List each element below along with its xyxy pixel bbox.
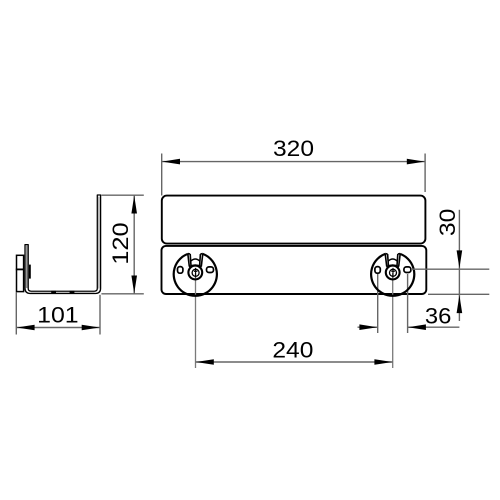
dimension 120: bottom arrow <box>131 276 137 294</box>
extension line: left slot of right bracket (36 dim) <box>377 274 379 333</box>
svg-text:120: 120 <box>108 222 133 264</box>
bracket outer circle (gapped at top) <box>371 254 414 296</box>
dimension 36: dimension line right tail <box>408 326 460 328</box>
dimension 30: up arrow (outside, below) <box>457 295 463 313</box>
front view: shelf body panel <box>162 246 427 294</box>
dimension 320: right extension line <box>424 154 426 193</box>
bracket spring clip arc <box>191 259 200 261</box>
svg-text:240: 240 <box>272 337 313 362</box>
bracket boss top band <box>386 265 399 267</box>
bracket right fixing slot <box>404 267 411 273</box>
bracket mouth left prong <box>385 254 388 267</box>
dimension 120: bottom extension line <box>101 293 143 295</box>
dimension 36: right arrow (outside) <box>408 324 426 330</box>
centerline under right bracket <box>392 273 394 368</box>
side view: shelf sheet-metal profile (right wall, bottom, left lip) <box>25 195 101 294</box>
svg-text:101: 101 <box>37 303 79 328</box>
side view: wall bracket plate <box>17 255 24 291</box>
side view: bottom slot mark 2 <box>70 291 75 294</box>
side view: bottom slot mark 1 <box>51 291 56 294</box>
dimension 101: left arrow <box>17 325 35 331</box>
bracket screw head <box>390 269 397 276</box>
svg-text:30: 30 <box>435 209 460 237</box>
centerline under left bracket <box>195 273 197 368</box>
dimension 120: dimension line <box>133 195 135 294</box>
side view: left lip core shading <box>26 245 28 288</box>
bracket spring clip arc <box>388 259 397 261</box>
dimension 36: left arrow (outside) <box>359 324 377 330</box>
side view: bottom core shading <box>31 291 95 294</box>
dimension 240: left arrow <box>196 359 214 365</box>
bracket mouth right prong <box>397 254 400 267</box>
side view: bracket hook tab <box>29 265 31 279</box>
bracket mouth right prong <box>200 254 203 267</box>
dimension 36: dimension line left tail <box>358 326 378 328</box>
bracket boss top band <box>189 265 202 267</box>
svg-text:320: 320 <box>273 136 314 161</box>
bracket screw head <box>192 269 199 276</box>
front view: top rail panel <box>162 196 426 244</box>
bracket mouth left prong <box>188 254 191 267</box>
bracket right fixing slot <box>207 267 214 273</box>
dimension 320: left extension line <box>161 154 163 196</box>
side view: right wall core shading <box>98 197 100 289</box>
bracket left fixing slot <box>375 267 380 274</box>
dimension 101: left extension line <box>15 293 17 335</box>
bracket screw slot <box>391 268 395 278</box>
dimension 240: dimension line <box>196 361 393 363</box>
mounting bracket U1 (left) <box>174 254 217 296</box>
dimension 101: dimension line <box>16 327 100 329</box>
dimension 30: lower extension line (shelf bottom edge) <box>428 293 489 295</box>
bracket boss circle <box>386 266 400 280</box>
mounting bracket U2 (right) <box>371 254 414 296</box>
dimension 320: dimension line <box>162 161 425 163</box>
dimension 101: right arrow <box>82 325 100 331</box>
bracket boss circle <box>188 266 202 280</box>
svg-text:36: 36 <box>425 304 452 329</box>
dimension 30: upper extension line (bracket hole centerline) <box>411 268 489 270</box>
dimension 240: right arrow <box>374 359 392 365</box>
dimension 30: down arrow (outside, above) <box>457 250 463 268</box>
bracket screw slot <box>194 268 198 278</box>
bracket left fixing slot <box>178 267 183 274</box>
dimension 120: top arrow <box>131 196 137 214</box>
dimension 120: top extension line <box>101 194 143 196</box>
bracket outer circle (gapped at top) <box>174 254 217 296</box>
dimension 30: dimension line <box>458 210 460 321</box>
extension line: right slot of right bracket (36 dim) <box>407 274 409 333</box>
dimension 101: right extension line <box>99 295 101 335</box>
dimension 320: left arrow <box>162 159 180 165</box>
side view: wall bracket plate divider <box>16 268 24 270</box>
dimension 320: right arrow <box>407 159 425 165</box>
